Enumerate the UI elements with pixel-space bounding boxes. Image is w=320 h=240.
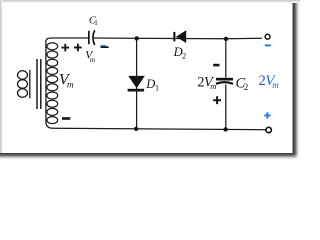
node dot top (D1 junction) xyxy=(135,36,139,40)
node dot bottom (D1 junction) xyxy=(134,127,138,131)
node dot top (C2 junction) xyxy=(224,37,228,41)
wire top (C1 to D2 to terminal) xyxy=(94,37,262,40)
polarity + bottom terminal (blue) xyxy=(264,112,270,118)
branch wire D1 xyxy=(136,39,138,129)
terminal bottom-right xyxy=(266,127,271,132)
svg-text:1: 1 xyxy=(155,83,159,93)
label Vm (secondary) xyxy=(59,71,74,90)
wire bottom xyxy=(53,128,266,129)
diode D1 xyxy=(128,76,145,92)
polarity - (secondary bottom) xyxy=(62,117,70,120)
label D2 xyxy=(173,45,187,61)
transformer primary winding xyxy=(18,70,30,99)
label C2 xyxy=(236,75,249,92)
capacitor C2 xyxy=(216,78,233,84)
wire top (secondary to C1) xyxy=(51,37,89,39)
label 2Vm (across C2) xyxy=(197,74,216,90)
svg-text:1: 1 xyxy=(94,18,98,27)
capacitor C1 xyxy=(88,30,95,45)
polarity - right of C1 (blue over black) xyxy=(100,45,108,48)
svg-text:m: m xyxy=(67,80,74,90)
transformer secondary winding xyxy=(46,38,58,128)
svg-text:D: D xyxy=(145,77,155,91)
node dot bottom (C2 junction) xyxy=(223,127,227,131)
label C1 xyxy=(89,15,98,27)
branch wire C2 (upper) xyxy=(225,39,227,78)
terminal top-right xyxy=(265,34,270,39)
polarity - above C2 xyxy=(213,64,219,67)
label D1 xyxy=(145,77,159,93)
svg-text:m: m xyxy=(210,81,216,91)
diode D2 xyxy=(173,30,186,43)
svg-text:m: m xyxy=(90,55,96,64)
svg-text:m: m xyxy=(272,80,279,90)
polarity - top terminal (blue) xyxy=(265,44,271,46)
svg-text:2: 2 xyxy=(244,82,249,92)
polarity + + (secondary top) xyxy=(62,44,82,52)
label 2Vm output (blue) xyxy=(258,73,279,90)
branch wire C2 (lower) xyxy=(225,84,227,129)
transformer core xyxy=(37,59,41,109)
label Vm (below C1) xyxy=(85,50,96,64)
polarity + below C2 xyxy=(213,96,221,104)
svg-text:2: 2 xyxy=(182,51,186,61)
